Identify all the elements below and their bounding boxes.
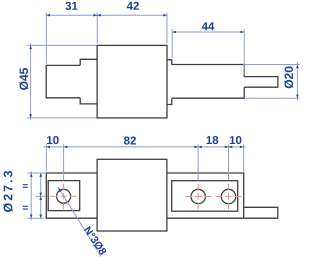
dim line 10/82/18/10 — [43, 146, 245, 148]
left shaft (top view) — [46, 65, 80, 97]
left pocket rect (bottom view) — [48, 181, 79, 211]
arrows equal dim at top — [39, 173, 42, 177]
arrow 44 left — [172, 31, 176, 34]
arrow 42 right — [163, 14, 167, 17]
dim line 44 — [172, 31, 244, 33]
centerline H1 — [51, 195, 77, 197]
text Ø45 — [19, 68, 28, 90]
dimension/extension lines bottom view (blue) — [27, 144, 246, 256]
ext line x=172.2 (dim 44 left) — [171, 29, 173, 58]
hole H2 — [191, 189, 205, 203]
left collar Ø27.3 (top view) — [80, 59, 97, 104]
arrows at 228.6 — [225, 146, 229, 149]
text 82 — [124, 136, 136, 144]
arrow at 63.6 — [64, 146, 68, 149]
ext line x=167 (dim 42 right) — [166, 13, 168, 43]
hole H1 left — [57, 189, 71, 203]
right neck step top (top view) — [167, 60, 172, 65]
arrows equal dim middle — [39, 193, 42, 197]
ext line y=64.5 (dim Ø20 top) — [243, 64, 300, 66]
arrow 10 right end — [240, 146, 244, 149]
right plate (bottom view) — [167, 173, 244, 218]
right neck step bottom (top view) — [167, 98, 172, 104]
arrow Ø20 bottom — [296, 95, 299, 99]
text 31 — [65, 2, 77, 10]
text 42 — [127, 2, 139, 10]
arrow Ø27.3 bottom — [30, 215, 33, 219]
arrow 44 right — [241, 31, 245, 34]
dim line Ø27.3 — [30, 171, 32, 221]
ext line x=46.3 (dim 31 left) — [45, 13, 47, 64]
right block Ø20 (top view) — [172, 65, 244, 99]
text 18 — [207, 136, 219, 144]
equal sign top — [23, 184, 28, 188]
dimension texts bottom view — [3, 136, 241, 256]
arrow Ø45 top — [29, 45, 32, 49]
ext line x=243.6 (plate right) — [243, 144, 245, 172]
ext line x=97.2 (dim 31/42) — [96, 13, 98, 44]
red centerlines — [51, 184, 242, 210]
right stud (top view) — [244, 77, 278, 88]
right pocket rect (bottom view) — [172, 181, 238, 212]
big block Ø45 (top view) — [97, 45, 167, 118]
ext line x=198.1 (hole2 center) — [197, 144, 199, 180]
dimension lines, extension lines (blue) — [27, 13, 300, 121]
ext line y=45.4 (dim Ø45 top) — [27, 44, 97, 46]
dim line Ø20 — [296, 62, 298, 101]
ext line y=218.4 (Ø27.3 bottom) — [27, 217, 44, 219]
ext line y=173 (Ø27.3 top) — [27, 172, 46, 174]
dim line Ø45 — [30, 43, 32, 120]
centerline H3 — [216, 196, 242, 198]
leader line N3O8 — [58, 187, 101, 256]
left block (bottom view) — [46, 173, 97, 218]
arrow Ø27.3 top — [30, 173, 33, 177]
arrows at 198.1 — [194, 146, 198, 149]
ext line x=46.3 (dim 10 left) — [45, 144, 47, 172]
arrows at 97.2 — [94, 14, 98, 17]
text 10 right — [230, 136, 242, 144]
leader arrowhead — [58, 187, 62, 192]
equal sign bottom — [23, 206, 28, 210]
equal-spacing dim line — [40, 173, 42, 218]
dimension arrows top view (dark blue) — [29, 14, 298, 118]
right stud (bottom view) — [244, 207, 278, 218]
ext line x=244.2 (dim 44 right) — [243, 29, 245, 74]
ext line y=98.2 (dim Ø20 bottom) — [246, 97, 300, 99]
arrow 31 left — [46, 14, 50, 17]
arrow 10 left — [46, 146, 50, 149]
arrow Ø20 top — [296, 65, 299, 69]
ext line x=228.6 (hole3 center) — [228, 144, 230, 180]
dimension texts top view — [19, 2, 293, 90]
text 44 — [202, 22, 215, 30]
text Ø27.3 — [3, 171, 12, 212]
text Ø20 — [284, 67, 293, 89]
big block (bottom view) — [97, 159, 167, 231]
ext line y=117.9 (dim Ø45 bottom) — [27, 117, 97, 119]
centerline H2 — [185, 196, 211, 198]
arrows bottom view — [30, 146, 244, 219]
text N°3 Ø8 — [84, 226, 108, 256]
centerline ext to left — [35, 195, 46, 197]
arrow equal dim bottom — [39, 215, 42, 219]
arrow Ø45 bottom — [29, 114, 32, 118]
hole H3 — [221, 189, 235, 203]
ext line x=63.6 (hole1 center) — [63, 144, 65, 180]
dim line 31/42 — [46, 14, 167, 16]
text 10 left — [47, 136, 59, 144]
